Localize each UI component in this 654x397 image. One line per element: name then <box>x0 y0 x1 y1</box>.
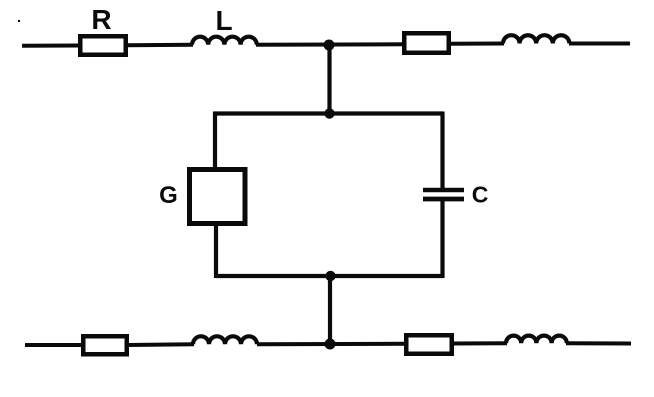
svg-text:L: L <box>215 5 232 36</box>
wire: bottom line, between second resistor and second inductor <box>452 341 507 345</box>
node: shunt loop bottom junction <box>325 271 335 281</box>
wire: top line, right lead <box>569 42 630 46</box>
resistor R (series R, section 1) <box>80 36 126 55</box>
wire: bottom line, left lead <box>25 343 82 347</box>
node: bottom line junction <box>325 339 336 350</box>
inductor (series L, return path section 1) <box>193 336 257 344</box>
node: top junction <box>324 40 335 51</box>
resistor (series R, return path section 1) <box>83 336 127 354</box>
wire: loop right vertical, capacitor to bottom rail <box>440 199 444 278</box>
svg-text:C: C <box>472 182 489 208</box>
wire: vertical from top node down to shunt loop top rail <box>327 45 331 114</box>
wire: top line, L to second resistor (through node) <box>256 42 403 47</box>
wire: top line, between R and L <box>127 43 193 48</box>
wire: shunt loop top rail <box>214 111 443 115</box>
wire: shunt loop bottom rail <box>216 274 443 278</box>
wire: loop left vertical, G box to bottom rail <box>214 225 218 278</box>
resistor (series R, section 2) <box>404 33 449 53</box>
wire: bottom line, inductor to second resistor (through node) <box>257 342 405 347</box>
wire: loop left vertical, top rail to G box <box>213 112 217 169</box>
speck (scan artifact) <box>18 20 20 22</box>
wire: bottom line, right lead <box>566 341 631 345</box>
wire: top line, left lead <box>22 44 79 48</box>
inductor (series L, return path section 2) <box>506 336 567 344</box>
svg-text:R: R <box>91 4 111 35</box>
svg-text:G: G <box>159 182 178 209</box>
wire: loop right vertical, top rail to capacitor <box>440 112 444 189</box>
wire: vertical from loop bottom rail down to bottom line <box>328 276 332 344</box>
capacitor C, bottom plate <box>423 197 464 202</box>
capacitor C, top plate <box>423 188 464 193</box>
node: shunt loop top junction <box>324 108 334 118</box>
conductance G box <box>190 170 246 224</box>
inductor (series L, section 2) <box>503 35 569 43</box>
resistor (series R, return path section 2) <box>406 335 452 354</box>
wire: bottom line, between resistor and inductor <box>128 342 194 347</box>
wire: top line, between second resistor and second inductor <box>450 42 504 46</box>
inductor L (series L, section 1) <box>192 37 257 45</box>
